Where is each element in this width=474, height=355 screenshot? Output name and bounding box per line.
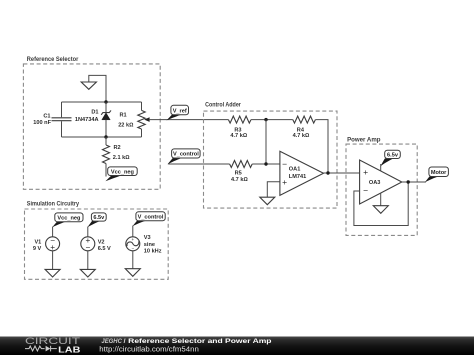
svg-text:V2: V2	[98, 239, 105, 245]
svg-text:/: /	[124, 338, 126, 345]
svg-text:6.5v: 6.5v	[387, 153, 399, 159]
potentiometer R1	[118, 102, 149, 137]
section box Power Amp	[346, 136, 417, 235]
ground (V1)	[45, 269, 60, 277]
wire OA3 feedback loop	[354, 182, 408, 226]
wire V_ref (R1 wiper to R3)	[149, 119, 229, 121]
wire R4 to output node (feedback)	[315, 120, 328, 173]
resistor R5	[230, 161, 253, 184]
wire OA3 output	[402, 181, 426, 183]
wire R5 to OA1 inverting input	[252, 163, 280, 165]
svg-text:4.7 kΩ: 4.7 kΩ	[293, 133, 310, 139]
svg-text:Power Amp: Power Amp	[347, 136, 380, 143]
voltage source V3 (sine)	[126, 226, 162, 269]
wire R3 to R4	[251, 119, 293, 121]
svg-text:LM741: LM741	[289, 174, 306, 180]
svg-text:Simulation Circuitry: Simulation Circuitry	[27, 200, 80, 207]
node R3/R4 junction	[264, 118, 267, 121]
svg-text:http://circuitlab.com/cfm54nn: http://circuitlab.com/cfm54nn	[99, 347, 199, 354]
section box Simulation Circuitry	[25, 200, 169, 279]
op-amp OA1 LM741	[280, 151, 324, 195]
svg-text:V_control: V_control	[173, 152, 199, 158]
node output / feedback junction	[326, 171, 329, 174]
svg-text:1N4734A: 1N4734A	[75, 117, 99, 123]
net flag Vcc_neg (reference selector)	[105, 167, 137, 181]
net flag Motor	[425, 167, 449, 183]
svg-text:4.7 kΩ: 4.7 kΩ	[230, 133, 247, 139]
svg-text:10 kHz: 10 kHz	[144, 248, 162, 254]
section box Control Adder	[204, 101, 338, 208]
svg-text:R1: R1	[120, 113, 127, 119]
svg-text:JEGHC: JEGHC	[101, 338, 122, 345]
node bottom rail / R2	[104, 135, 107, 138]
svg-text:Control Adder: Control Adder	[205, 101, 241, 108]
svg-text:V1: V1	[34, 239, 41, 245]
svg-text:D1: D1	[91, 109, 98, 115]
svg-text:6.5v: 6.5v	[93, 215, 105, 221]
resistor R2	[103, 137, 131, 177]
svg-text:OA1: OA1	[289, 166, 301, 172]
zener diode D1	[75, 102, 111, 137]
svg-text:−: −	[86, 243, 91, 252]
resistor R3	[228, 116, 251, 139]
svg-text:+: +	[282, 177, 287, 187]
wire V_control (flag to R5)	[168, 163, 229, 165]
svg-text:+: +	[363, 167, 368, 177]
ground (V3)	[125, 269, 140, 277]
svg-text:100 nF: 100 nF	[33, 120, 51, 126]
svg-text:V_ref: V_ref	[173, 108, 187, 114]
capacitor C1	[33, 102, 71, 137]
svg-text:−: −	[363, 186, 368, 196]
node top rail / D1	[104, 100, 107, 103]
svg-text:+: +	[131, 237, 134, 242]
wire OA1 non-inverting input to ground	[267, 182, 280, 197]
wire top rail	[62, 101, 142, 103]
wire junction to inverting input	[265, 120, 267, 164]
svg-text:Vcc_neg: Vcc_neg	[111, 170, 135, 176]
svg-text:Vcc_neg: Vcc_neg	[57, 216, 81, 222]
svg-text:Reference Selector and Power A: Reference Selector and Power Amp	[128, 338, 271, 345]
svg-text:4.7 kΩ: 4.7 kΩ	[231, 177, 248, 183]
wire OA3 positive supply pin	[380, 164, 382, 171]
svg-text:R5: R5	[235, 171, 242, 177]
svg-text:R2: R2	[114, 145, 121, 151]
svg-text:LAB: LAB	[58, 344, 80, 354]
wire bottom rail	[62, 136, 142, 138]
svg-text:Motor: Motor	[431, 170, 447, 176]
svg-text:V_control: V_control	[138, 215, 164, 221]
svg-text:6.5 V: 6.5 V	[98, 246, 111, 252]
voltage source V1	[33, 227, 60, 270]
svg-text:−: −	[282, 159, 287, 169]
ground (V2)	[80, 269, 95, 277]
net flag 6.5v (OA3 supply)	[380, 150, 400, 167]
footer title	[101, 338, 271, 345]
resistor R4	[293, 116, 316, 139]
net flag Vcc_neg (V1)	[52, 213, 83, 228]
svg-text:Reference Selector: Reference Selector	[27, 56, 79, 63]
ground (OA3 supply)	[373, 206, 388, 214]
CircuitLab logo	[25, 335, 80, 354]
net flag 6.5v (V2)	[87, 213, 106, 228]
svg-text:sine: sine	[144, 242, 155, 248]
section box Reference Selector	[23, 56, 160, 189]
svg-text:C1: C1	[43, 114, 50, 120]
svg-text:−: −	[131, 246, 134, 251]
svg-text:2.1 kΩ: 2.1 kΩ	[113, 155, 130, 161]
net flag V_ref	[166, 105, 188, 120]
svg-text:V3: V3	[144, 235, 151, 241]
op-amp OA3	[360, 160, 402, 204]
node inverting input junction	[264, 162, 267, 165]
wire OA1 output to OA3 input	[324, 172, 360, 174]
ground (OA1 + input)	[260, 197, 275, 205]
svg-text:9 V: 9 V	[33, 246, 42, 252]
svg-text:22 kΩ: 22 kΩ	[118, 122, 134, 128]
net flag V_control (V3)	[132, 212, 165, 227]
net flag V_control (control adder input)	[167, 149, 200, 165]
node output / feedback	[407, 180, 410, 183]
ground (top of reference selector)	[81, 75, 106, 102]
wire OA3 negative supply pin	[380, 193, 382, 206]
svg-text:OA3: OA3	[369, 180, 381, 186]
voltage source V2	[81, 227, 111, 270]
